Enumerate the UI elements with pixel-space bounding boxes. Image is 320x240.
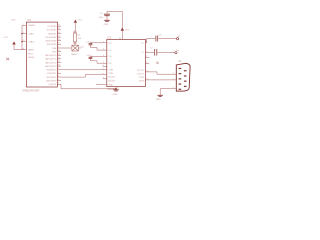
svg-text:(ADC2)PC2: (ADC2)PC2 bbox=[45, 61, 57, 64]
svg-text:9: 9 bbox=[23, 32, 24, 34]
svg-text:GND: GND bbox=[108, 84, 113, 86]
svg-text:AREF: AREF bbox=[28, 49, 34, 52]
capacitor C3 wire bottom bbox=[91, 45, 107, 50]
supply VCC arrow at IC2 pin16 bbox=[121, 27, 125, 30]
svg-text:21: 21 bbox=[22, 48, 24, 50]
svg-text:T1IN: T1IN bbox=[108, 70, 113, 72]
capacitor C5 top stub bbox=[106, 12, 108, 15]
svg-text:PB7: PB7 bbox=[52, 51, 57, 53]
IC U1 right pin numbers bbox=[58, 25, 60, 85]
resistor R1 bottom terminal bbox=[74, 42, 76, 44]
svg-text:VCC: VCC bbox=[78, 20, 83, 22]
svg-text:(INT0)PD2: (INT0)PD2 bbox=[46, 77, 57, 79]
resistor R1 body bbox=[74, 33, 77, 42]
connector X1 pin numbers bbox=[173, 73, 174, 90]
wire connector pin5 to ground bbox=[160, 89, 176, 95]
IC U2 unconnected stubs right bbox=[145, 58, 149, 64]
connector X1 right pads bbox=[184, 70, 187, 87]
svg-text:RST: RST bbox=[12, 19, 17, 21]
capacitor C4 wire bottom bbox=[91, 59, 107, 63]
svg-text:9: 9 bbox=[103, 77, 104, 79]
connector X1 shell bbox=[176, 63, 190, 91]
svg-text:IC1: IC1 bbox=[27, 19, 32, 22]
svg-text:T2IN: T2IN bbox=[108, 73, 113, 75]
svg-text:10: 10 bbox=[22, 40, 24, 42]
svg-text:2: 2 bbox=[173, 78, 174, 80]
svg-text:VCC: VCC bbox=[125, 29, 130, 31]
svg-text:AGND: AGND bbox=[28, 56, 35, 59]
wire crystal right stub bbox=[79, 47, 81, 49]
svg-text:(T0)PD4: (T0)PD4 bbox=[48, 84, 57, 86]
IC U2 body (MAX232 IC2) bbox=[107, 39, 146, 86]
capacitor C4 wire top bbox=[91, 55, 107, 58]
svg-text:6: 6 bbox=[146, 51, 147, 53]
svg-text:C7: C7 bbox=[150, 48, 154, 50]
wire TXD IC1 to IC2 with jog bbox=[61, 74, 107, 77]
svg-text:IC2: IC2 bbox=[107, 37, 112, 40]
svg-text:VCC: VCC bbox=[4, 37, 9, 39]
svg-text:(SS)PB2: (SS)PB2 bbox=[48, 33, 57, 35]
ground symbol bottom middle bbox=[113, 90, 119, 91]
svg-text:PB6: PB6 bbox=[52, 48, 57, 50]
capacitor C5 plates bbox=[104, 14, 110, 16]
svg-text:ATMEGA8-16PI: ATMEGA8-16PI bbox=[22, 89, 39, 92]
svg-text:T2OUT: T2OUT bbox=[137, 73, 145, 75]
svg-text:R1: R1 bbox=[78, 35, 82, 37]
wire C6 to pad bbox=[158, 38, 176, 40]
svg-text:(SCK)PB5: (SCK)PB5 bbox=[47, 44, 57, 46]
svg-text:5: 5 bbox=[173, 87, 174, 89]
wire V- to C7 bbox=[145, 51, 154, 53]
svg-text:(TXD)PD1: (TXD)PD1 bbox=[47, 73, 57, 75]
svg-text:(MISO)PB4: (MISO)PB4 bbox=[46, 41, 57, 43]
svg-text:GND: GND bbox=[156, 99, 161, 101]
svg-text:V+: V+ bbox=[141, 43, 144, 45]
svg-text:R2: R2 bbox=[178, 36, 182, 38]
svg-text:11: 11 bbox=[102, 65, 104, 67]
junction on rail bbox=[21, 33, 23, 35]
svg-text:C4 1u: C4 1u bbox=[86, 55, 92, 57]
capacitor C5 bottom stub bbox=[106, 16, 108, 20]
capacitor C7 plates bbox=[155, 49, 157, 56]
IC U2 unconnected stubs left bbox=[103, 67, 107, 79]
flag mark above jog bbox=[156, 62, 158, 64]
wire R1IN to connector bbox=[145, 79, 176, 81]
IC U1 left pin stubs bbox=[22, 25, 26, 49]
svg-text:7: 7 bbox=[146, 56, 147, 58]
svg-text:C5: C5 bbox=[100, 13, 104, 15]
IC U2 right pin names bbox=[137, 43, 145, 83]
svg-text:100n: 100n bbox=[99, 17, 104, 19]
svg-text:(ADC1)PC1: (ADC1)PC1 bbox=[45, 58, 57, 61]
svg-text:(MOSI)PB3: (MOSI)PB3 bbox=[46, 37, 57, 39]
svg-text:R1IN: R1IN bbox=[139, 77, 144, 79]
svg-text:C1-: C1- bbox=[108, 50, 112, 52]
svg-text:GND: GND bbox=[104, 24, 109, 26]
wire V+ to C6 bbox=[145, 39, 155, 43]
svg-text:5: 5 bbox=[103, 62, 104, 64]
svg-text:13: 13 bbox=[146, 79, 148, 81]
IC U1 right pin names bbox=[45, 26, 57, 86]
IC U1 left pin names bbox=[28, 25, 36, 59]
svg-text:GND: GND bbox=[113, 94, 118, 96]
svg-text:1: 1 bbox=[103, 41, 104, 43]
wire left rail bbox=[21, 25, 23, 49]
svg-text:10k: 10k bbox=[78, 38, 82, 40]
IC U2 right pin numbers bbox=[146, 41, 148, 80]
wire R1 to crystal bbox=[74, 44, 76, 45]
svg-text:RESET: RESET bbox=[28, 25, 36, 27]
svg-text:C2+: C2+ bbox=[108, 56, 113, 58]
supply VCC arrow left bbox=[12, 41, 16, 44]
IC U2 left pin names bbox=[108, 43, 116, 87]
wire T1OUT to connector with jog bbox=[145, 72, 176, 74]
connector X1 left pads bbox=[179, 68, 182, 90]
svg-text:(RXD)PD0: (RXD)PD0 bbox=[46, 70, 57, 72]
svg-text:8MHZ: 8MHZ bbox=[71, 54, 77, 56]
svg-text:(OC1)PB1: (OC1)PB1 bbox=[47, 30, 57, 32]
svg-text:C6: C6 bbox=[159, 35, 163, 37]
svg-text:3: 3 bbox=[103, 49, 104, 51]
wire VCC to rail bbox=[14, 44, 22, 49]
ground under C5 bbox=[104, 20, 110, 21]
open pin circle V+ net bbox=[177, 38, 179, 40]
svg-text:Q1: Q1 bbox=[81, 46, 85, 48]
wire C7 to pad bbox=[157, 51, 174, 53]
wire crystal to IC pin bbox=[61, 47, 72, 49]
junction on rail bbox=[21, 41, 23, 43]
svg-text:(ICP)PB0: (ICP)PB0 bbox=[48, 26, 58, 28]
svg-text:X1: X1 bbox=[178, 60, 182, 63]
IC U1 body (microcontroller IC1) bbox=[26, 22, 57, 87]
open pin circle V- net bbox=[175, 52, 177, 54]
svg-text:4: 4 bbox=[103, 55, 104, 57]
svg-text:8: 8 bbox=[146, 62, 147, 64]
resistor R1 top terminal bbox=[74, 31, 76, 33]
IC U1 right pin stubs bbox=[57, 26, 61, 84]
supply VCC arrow above R1 bbox=[74, 20, 78, 23]
svg-text:XTAL1: XTAL1 bbox=[28, 32, 35, 35]
svg-text:C1+: C1+ bbox=[108, 43, 113, 45]
IC U1 left pin numbers bbox=[22, 24, 24, 50]
svg-text:3: 3 bbox=[173, 73, 174, 75]
IC U2 left pin numbers bbox=[102, 41, 104, 79]
svg-text:C3 1u: C3 1u bbox=[86, 41, 92, 43]
svg-text:R1OUT: R1OUT bbox=[108, 77, 116, 79]
svg-text:T1OUT: T1OUT bbox=[137, 70, 145, 72]
svg-text:AVCC: AVCC bbox=[28, 52, 34, 55]
svg-text:V-: V- bbox=[142, 52, 144, 54]
wire GND bottom rail bbox=[61, 84, 116, 89]
junction GND rail bbox=[115, 88, 117, 90]
wire RXD IC1 to IC2 bbox=[61, 69, 107, 71]
svg-text:C2-: C2- bbox=[108, 63, 112, 65]
capacitor C6 plates bbox=[156, 36, 158, 42]
svg-text:R2IN: R2IN bbox=[139, 80, 144, 82]
ground symbol bottom right bbox=[158, 95, 163, 96]
flag mark lower-left bbox=[6, 58, 9, 61]
wire VCC feed to IC2 bbox=[107, 12, 122, 40]
capacitor C3 wire top bbox=[91, 42, 107, 45]
crystal Q1 body bbox=[72, 45, 79, 51]
svg-text:(INT1)PD3: (INT1)PD3 bbox=[46, 80, 57, 82]
svg-text:(ADC3)PC3: (ADC3)PC3 bbox=[45, 65, 57, 68]
capacitor C3 plates bbox=[89, 44, 93, 45]
svg-text:15: 15 bbox=[117, 87, 119, 89]
svg-text:XTAL2: XTAL2 bbox=[28, 40, 35, 43]
svg-text:(ADC0)PC0: (ADC0)PC0 bbox=[45, 54, 57, 57]
capacitor C4 plates bbox=[89, 57, 93, 58]
svg-text:14: 14 bbox=[146, 71, 148, 73]
wire R2OUT short bbox=[96, 84, 107, 86]
svg-text:1: 1 bbox=[23, 24, 24, 26]
svg-text:R1: R1 bbox=[176, 50, 180, 52]
svg-text:R2OUT: R2OUT bbox=[108, 80, 116, 82]
